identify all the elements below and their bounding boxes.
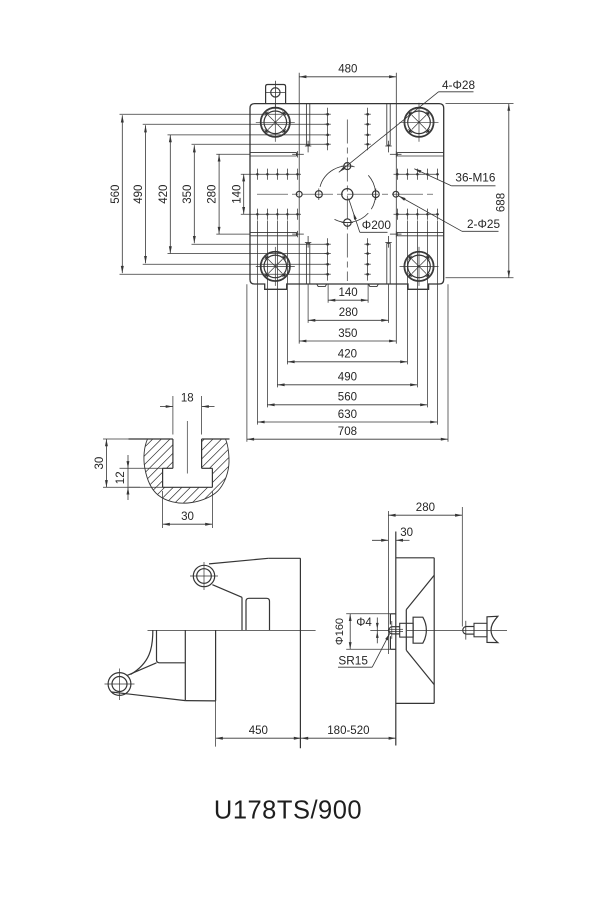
svg-text:560: 560 <box>338 392 357 404</box>
svg-text:280: 280 <box>339 307 358 319</box>
svg-text:36-M16: 36-M16 <box>455 171 495 185</box>
svg-text:Φ4: Φ4 <box>356 617 372 629</box>
svg-text:30: 30 <box>181 511 194 523</box>
svg-text:18: 18 <box>181 393 194 405</box>
svg-text:450: 450 <box>249 725 268 737</box>
svg-text:U178TS/900: U178TS/900 <box>214 796 362 824</box>
svg-text:350: 350 <box>338 328 357 340</box>
svg-text:490: 490 <box>338 372 357 384</box>
svg-text:30: 30 <box>400 527 413 539</box>
svg-text:12: 12 <box>115 471 127 484</box>
svg-text:280: 280 <box>207 185 219 204</box>
svg-text:2-Φ25: 2-Φ25 <box>467 217 500 231</box>
svg-text:480: 480 <box>338 64 357 76</box>
svg-text:420: 420 <box>338 349 357 361</box>
svg-text:490: 490 <box>133 185 145 204</box>
svg-text:Φ160: Φ160 <box>334 618 346 645</box>
svg-text:4-Φ28: 4-Φ28 <box>442 78 475 92</box>
svg-text:560: 560 <box>110 185 122 204</box>
svg-text:30: 30 <box>94 457 106 470</box>
svg-text:708: 708 <box>338 426 357 438</box>
svg-text:140: 140 <box>339 287 358 299</box>
svg-text:350: 350 <box>182 185 194 204</box>
svg-text:420: 420 <box>158 185 170 204</box>
svg-text:280: 280 <box>416 502 435 514</box>
svg-text:630: 630 <box>338 409 357 421</box>
svg-text:Φ200: Φ200 <box>362 218 392 232</box>
svg-text:SR15: SR15 <box>338 654 368 668</box>
svg-text:688: 688 <box>496 193 508 212</box>
svg-text:140: 140 <box>231 185 243 204</box>
svg-text:180-520: 180-520 <box>327 725 369 737</box>
